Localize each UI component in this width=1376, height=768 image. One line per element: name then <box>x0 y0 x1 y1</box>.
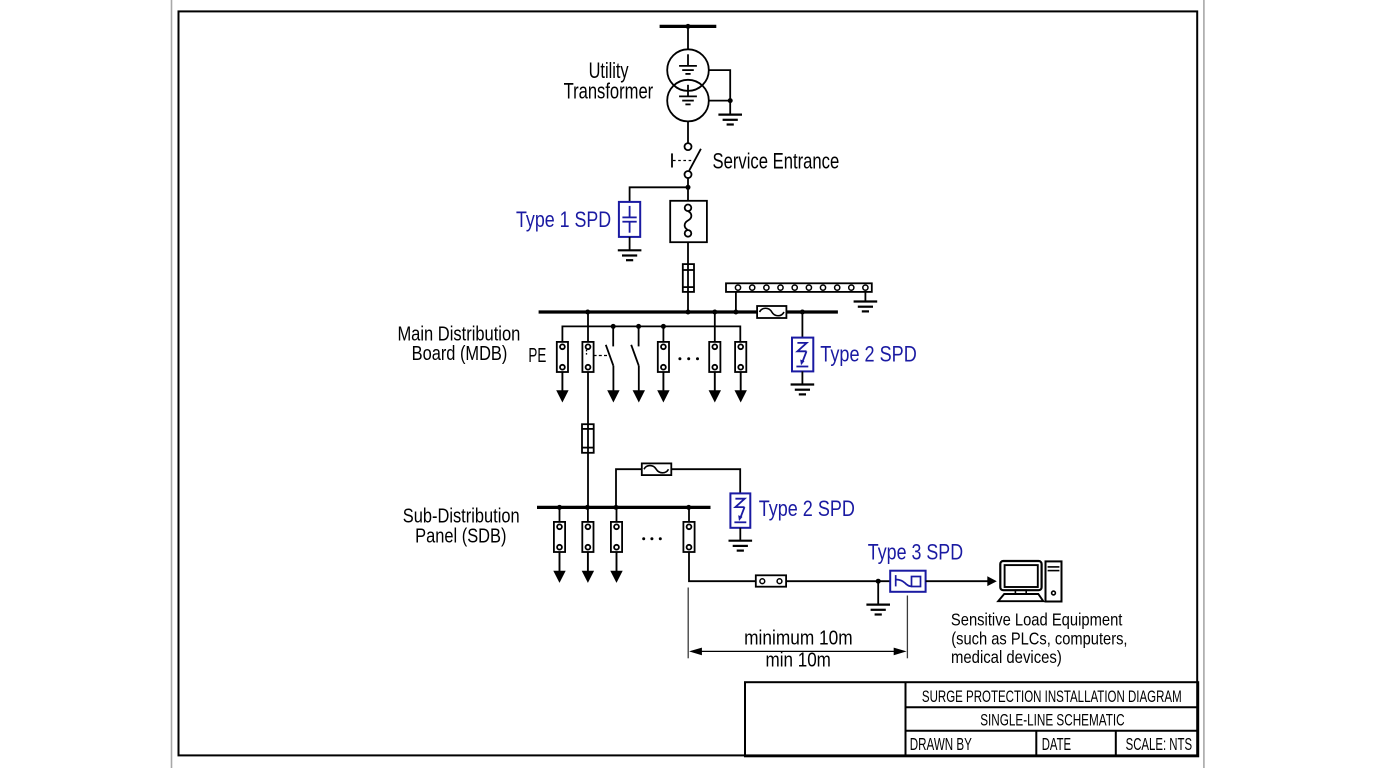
svg-text:minimum 10m: minimum 10m <box>744 627 853 649</box>
svg-text:min 10m: min 10m <box>766 650 831 672</box>
svg-text:Service Entrance: Service Entrance <box>713 148 840 173</box>
svg-text:PE: PE <box>528 345 546 367</box>
svg-text:Sensitive Load Equipment: Sensitive Load Equipment <box>951 609 1123 629</box>
svg-text:Type 2 SPD: Type 2 SPD <box>820 342 917 367</box>
svg-text:SCALE: NTS: SCALE: NTS <box>1126 734 1193 754</box>
svg-text:Sub-Distribution: Sub-Distribution <box>403 506 520 528</box>
svg-text:Board (MDB): Board (MDB) <box>412 343 508 365</box>
svg-text:DATE: DATE <box>1042 734 1071 754</box>
svg-text:Type 1 SPD: Type 1 SPD <box>516 207 611 232</box>
svg-text:Type 3 SPD: Type 3 SPD <box>868 539 963 564</box>
svg-text:(such as PLCs, computers,: (such as PLCs, computers, <box>951 629 1127 649</box>
svg-text:medical devices): medical devices) <box>951 647 1062 667</box>
svg-text:Transformer: Transformer <box>564 79 654 104</box>
svg-text:DRAWN BY: DRAWN BY <box>910 734 972 754</box>
svg-text:Type 2 SPD: Type 2 SPD <box>759 496 855 521</box>
svg-text:SINGLE-LINE SCHEMATIC: SINGLE-LINE SCHEMATIC <box>980 711 1124 729</box>
svg-text:Main Distribution: Main Distribution <box>397 323 520 345</box>
svg-text:Panel (SDB): Panel (SDB) <box>415 525 506 547</box>
svg-text:SURGE PROTECTION INSTALLATION: SURGE PROTECTION INSTALLATION DIAGRAM <box>922 688 1182 706</box>
